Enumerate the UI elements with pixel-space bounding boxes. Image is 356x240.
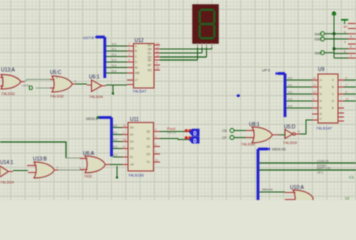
svg-text:D: D (332, 99, 334, 103)
data wire labels (317, 159, 331, 175)
svg-text:U2: U2 (345, 197, 349, 201)
svg-text:TC: TC (147, 160, 151, 164)
U12 left pin stubs (127, 46, 134, 85)
svg-text:SW1: SW1 (315, 38, 322, 42)
U9 left pin stubs (312, 80, 318, 120)
node D net label (22, 84, 52, 93)
wires bus B to U11 pins (113, 128, 122, 158)
terminal CP (222, 136, 246, 141)
svg-text:EMPTY:30: EMPTY:30 (317, 166, 331, 170)
U11 pin numbers (123, 124, 158, 163)
IC U12 (133, 38, 155, 94)
bus A (left, to U12) (95, 36, 105, 78)
svg-text:RBI: RBI (135, 71, 140, 75)
U11 right pin stubs (154, 132, 161, 163)
U5:D pin number (298, 130, 300, 134)
U6 buffer output stub (102, 85, 106, 87)
svg-text:U12: U12 (135, 38, 144, 44)
bus UP (to U9) (276, 72, 286, 117)
svg-text:D,1: D,1 (112, 47, 117, 51)
wire branch with node dot near U11 (116, 166, 118, 179)
U9 pin names (320, 78, 335, 121)
wire display pin1 vertical (197, 48, 199, 61)
wire long horizontal to U6:A (0, 142, 66, 158)
svg-text:74LS32: 74LS32 (241, 142, 256, 147)
terminal SW0 (315, 32, 335, 37)
bus UP label (262, 69, 270, 73)
svg-text:QE: QE (148, 58, 152, 62)
or-gate U10:A (290, 185, 313, 207)
power rail symbol (bar) (341, 20, 348, 29)
svg-text:D1: D1 (130, 133, 134, 137)
U6:A output stub (105, 164, 110, 166)
bus B wire labels (113, 124, 118, 158)
U6:A input stubs (80, 159, 88, 170)
U10:A input stubs (285, 193, 296, 200)
bus DOWN label (272, 148, 286, 152)
svg-text:U9: U9 (318, 67, 325, 73)
svg-text:U6:1: U6:1 (89, 75, 100, 81)
svg-text:A,2: A,2 (288, 90, 293, 94)
or-gate U8:B (241, 122, 272, 147)
junction node dot 1 (333, 32, 336, 35)
power symbol (arrow) (332, 12, 336, 18)
bus UP wire labels (288, 76, 293, 108)
svg-text:PL: PL (130, 155, 134, 159)
svg-text:A,4: A,4 (288, 104, 293, 108)
svg-text:A: A (332, 78, 334, 82)
terminal SW1 (315, 37, 349, 42)
U14 output stub (9, 171, 14, 173)
logic probe 2 (185, 136, 200, 145)
terminal SW2 (315, 51, 335, 56)
wire power vertical rail (333, 18, 335, 59)
U11 left pin stubs (122, 128, 128, 165)
U5:D output stub (295, 133, 300, 135)
svg-text:QA: QA (148, 43, 152, 47)
wire U13:A out to U5:C in (25, 80, 53, 82)
svg-text:A: A (135, 44, 137, 48)
wires bus UP to U9 pins (286, 80, 312, 108)
U13:A input pin stubs (0, 78, 4, 87)
edge IC pin numbers (344, 25, 352, 58)
svg-text:D3: D3 (130, 147, 134, 151)
wire display pin2 vertical (201, 48, 203, 54)
svg-text:7432: 7432 (84, 175, 92, 179)
wire data row 1 (259, 162, 356, 164)
svg-text:LOAD:30: LOAD:30 (317, 159, 329, 163)
wire U12 output row4 (160, 59, 198, 61)
wire U11 to probe 2 (160, 139, 190, 140)
wires rail to edge IC pins (334, 34, 348, 58)
wire data row 2 (259, 169, 356, 171)
U10:A wire label (262, 188, 273, 192)
wire vertical into U6:A upper input (66, 157, 82, 159)
wire display pin3 vertical (206, 48, 208, 58)
svg-text:CP: CP (222, 136, 227, 140)
svg-text:A,0: A,0 (113, 124, 118, 128)
svg-text:74LS04: 74LS04 (283, 140, 298, 145)
wire U14 out to U13:B (13, 170, 28, 172)
U6 buffer input stub (87, 84, 92, 86)
wires U9 right pins to edge (344, 80, 356, 101)
bus B (to U11) (97, 116, 112, 156)
U11 pin names (130, 126, 151, 167)
wire U6:A out to U11 (110, 164, 122, 166)
wire U8:B out to U5:D in (279, 134, 285, 136)
svg-text:Q3: Q3 (147, 152, 151, 156)
svg-text:E: E (332, 106, 334, 110)
wire U12 output row1 (160, 48, 212, 50)
inverter U6 (buffer near U12) (89, 75, 104, 100)
svg-text:74LS47: 74LS47 (133, 89, 148, 94)
U13:A output pin stub (21, 81, 25, 83)
svg-text:B: B (332, 85, 334, 89)
U5:C output pin stub (72, 83, 76, 85)
svg-text:A,4: A,4 (113, 153, 118, 157)
Pout label (167, 126, 176, 135)
svg-text:74LS147: 74LS147 (316, 126, 333, 131)
bus A wire labels (112, 42, 117, 73)
U13:B input stubs (27, 166, 37, 173)
wire U5:D out up to U9 (300, 120, 312, 134)
display pin stubs (198, 43, 212, 48)
svg-text:U11: U11 (130, 117, 139, 123)
svg-text:D,2: D,2 (112, 53, 117, 57)
svg-text:QB: QB (148, 47, 152, 51)
svg-text:A,1: A,1 (113, 131, 118, 135)
U8:B input stubs (246, 131, 255, 138)
svg-text:D,3: D,3 (112, 58, 117, 62)
svg-text:74LS32: 74LS32 (1, 91, 16, 96)
svg-text:UP:9: UP:9 (262, 69, 270, 73)
U8:B output stub (272, 134, 279, 136)
7-segment digit segments (200, 10, 215, 38)
svg-text:MEM:A5: MEM:A5 (272, 148, 286, 152)
logic probe 1 (185, 129, 200, 138)
svg-text:C: C (135, 55, 137, 59)
capacitor C1 label (349, 175, 355, 180)
svg-text:A,0: A,0 (288, 76, 293, 80)
svg-text:U13:A: U13:A (1, 68, 16, 74)
U5:C input pin stubs (50, 80, 55, 89)
svg-text:D: D (29, 85, 34, 92)
svg-text:QG: QG (148, 68, 152, 72)
svg-text:B: B (135, 49, 137, 53)
IC U11 (128, 117, 154, 178)
wire display pin4 vertical (211, 48, 213, 50)
wire U5:C out to U6 buffer in (76, 83, 87, 85)
U5:C pin numbers (56, 76, 77, 84)
svg-text:74LS04: 74LS04 (89, 94, 104, 99)
wire bus to U10:A (259, 191, 285, 193)
svg-text:74LS32: 74LS32 (50, 94, 65, 99)
svg-text:Q0: Q0 (147, 130, 151, 134)
wire branch down with node dot (112, 85, 114, 95)
svg-text:A,3: A,3 (288, 97, 293, 101)
svg-text:UP:1: UP:1 (317, 171, 324, 175)
U12 pin numbers (129, 42, 160, 71)
wires bus A to U12 pins (106, 46, 127, 73)
svg-text:D,5: D,5 (112, 69, 117, 73)
svg-text:UP: UP (130, 163, 134, 167)
svg-text:C: C (332, 92, 334, 96)
or-gate U13:B (33, 157, 54, 179)
svg-text:Q1: Q1 (147, 137, 151, 141)
svg-text:U17:9: U17:9 (83, 35, 94, 40)
terminal CB (222, 129, 246, 134)
or-gate U5:C (50, 70, 72, 99)
edge IC pin stubs (348, 24, 356, 59)
svg-text:D0: D0 (130, 126, 134, 130)
bus B label (86, 117, 98, 121)
node small text mark (345, 197, 349, 201)
U12 right pin stubs (154, 45, 160, 70)
svg-text:CB: CB (222, 129, 227, 133)
inverter U5:D (283, 125, 298, 146)
wire U11 to probe 1 (160, 131, 190, 133)
svg-text:D: D (135, 60, 137, 64)
sheet origin marker (237, 94, 240, 97)
wire U6 out to U12 pin (106, 84, 127, 86)
svg-text:U14:1: U14:1 (0, 160, 14, 166)
svg-text:C1: C1 (349, 175, 355, 180)
bus A label (83, 35, 94, 40)
U9 pin numbers (313, 76, 349, 101)
svg-text:A,1: A,1 (288, 83, 293, 87)
or-gate U13:A (1, 68, 21, 97)
inverter U14 (left edge bottom) (0, 160, 15, 185)
wire U12 output row3 (160, 56, 207, 58)
svg-text:A,2: A,2 (113, 138, 118, 142)
svg-text:D,0: D,0 (112, 42, 117, 46)
svg-text:MEM:A: MEM:A (86, 117, 98, 121)
7-segment display body (193, 5, 219, 44)
svg-text:QF: QF (148, 63, 152, 67)
svg-text:QC: QC (148, 51, 152, 55)
bus DOWN (bottom) (258, 148, 270, 201)
wire U12 output row2 (160, 52, 202, 54)
svg-text:MEM:A5: MEM:A5 (262, 188, 273, 192)
svg-text:D2: D2 (130, 140, 134, 144)
U13:B output stub (54, 169, 58, 171)
svg-text:74LS192: 74LS192 (128, 173, 145, 178)
U12 pin names (135, 43, 152, 82)
svg-text:A,3: A,3 (113, 145, 118, 149)
wire U13:B out to U6:A lower input (58, 169, 84, 171)
svg-text:BI: BI (135, 66, 138, 70)
svg-text:D,4: D,4 (112, 64, 117, 68)
svg-text:Q2: Q2 (147, 145, 151, 149)
IC U9 (316, 67, 338, 131)
or-gate U6:A (83, 151, 105, 179)
svg-text:74LS04: 74LS04 (0, 180, 15, 185)
junction node dot 2 (333, 47, 336, 50)
U9 right pin stubs (338, 80, 344, 121)
svg-text:LT: LT (135, 78, 138, 82)
U13:B pin numbers (57, 166, 82, 170)
